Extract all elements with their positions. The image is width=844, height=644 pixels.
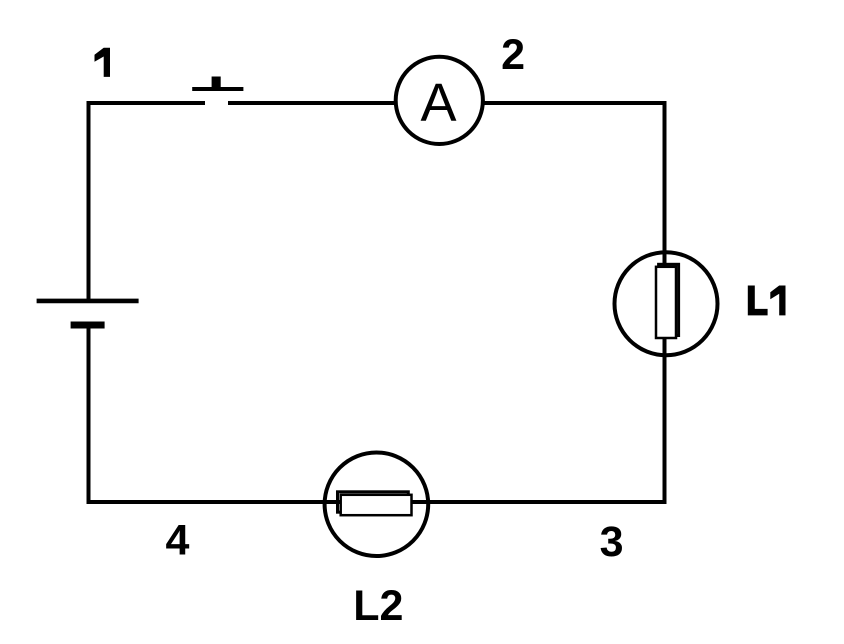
lamp L2 front rect [341, 495, 412, 515]
switch S1 bar [192, 87, 243, 91]
battery B1 long plate [37, 299, 139, 304]
switch S1 button stub [212, 77, 221, 89]
lamp L2 back rect [338, 492, 409, 512]
svg-text:4: 4 [166, 517, 190, 565]
lamp L1 back rect [659, 264, 679, 335]
svg-text:L2: L2 [353, 582, 403, 630]
ammeter A circle [396, 57, 483, 144]
wire main loop: top-right, right, bottom, left-lower [89, 103, 665, 502]
lamp L1 circle [615, 252, 718, 355]
svg-text:A: A [420, 73, 456, 133]
svg-text:3: 3 [600, 518, 624, 566]
svg-text:2: 2 [501, 31, 525, 79]
wire left+top-left segment [89, 103, 206, 301]
lamp L1 label letter L [748, 286, 768, 316]
lamp L2 circle [325, 452, 429, 556]
battery B1 short plate [71, 322, 105, 329]
lamp L1 front rect [656, 267, 676, 338]
lamp L1 label digit 1 [770, 286, 785, 316]
node 1 label [95, 48, 111, 77]
